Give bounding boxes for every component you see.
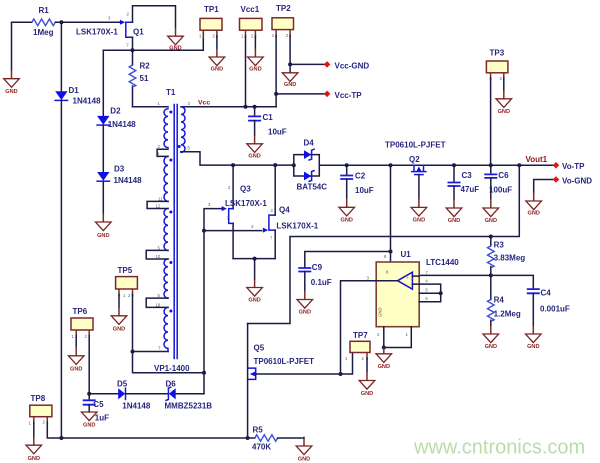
svg-text:GND: GND [485, 218, 497, 224]
wire Q4 drain [274, 165, 276, 215]
svg-text:7: 7 [126, 43, 129, 48]
svg-text:3: 3 [367, 275, 370, 280]
capacitor C4 [527, 288, 570, 325]
svg-text:GND: GND [527, 211, 539, 217]
ground G15 (C9) [297, 291, 313, 315]
wire gate row to Q4 [204, 230, 262, 232]
transistor Q2 [385, 141, 446, 175]
ground G22 (R4) [483, 326, 499, 351]
test point TP7 [345, 331, 370, 361]
svg-text:D4: D4 [304, 139, 315, 148]
diode D6 MMBZ5231B zener [165, 379, 213, 410]
wire TP3 right pin [503, 78, 505, 90]
svg-text:3: 3 [208, 202, 211, 207]
wire stem to ground [254, 259, 256, 279]
junction C5/D5 node [87, 392, 91, 396]
svg-text:R5: R5 [253, 426, 264, 435]
port Vo-TP [553, 162, 585, 171]
svg-text:7: 7 [270, 236, 273, 241]
svg-text:2: 2 [362, 356, 365, 361]
svg-text:GND: GND [448, 218, 460, 224]
wire to Vcc-GND port [290, 63, 327, 65]
svg-text:TP0610L-PJFET: TP0610L-PJFET [254, 357, 315, 366]
capacitor C2 [340, 165, 374, 198]
tap stub 2 [147, 201, 168, 208]
svg-text:1: 1 [406, 332, 409, 337]
svg-text:GND: GND [28, 456, 40, 462]
svg-text:GND: GND [113, 326, 125, 332]
op-amp U1 LTC1440 [367, 250, 460, 337]
svg-text:TP2: TP2 [276, 4, 291, 13]
svg-text:7: 7 [425, 270, 428, 275]
svg-text:LSK170X-1: LSK170X-1 [276, 221, 318, 230]
ground G2 (top, Q1 drain) [168, 28, 184, 52]
svg-text:Vo-GND: Vo-GND [562, 176, 592, 185]
svg-text:3: 3 [251, 224, 254, 229]
svg-text:2: 2 [158, 144, 161, 149]
svg-text:T1: T1 [166, 88, 176, 97]
wire to Vcc-TP port [276, 93, 327, 95]
svg-text:2: 2 [213, 34, 216, 39]
svg-text:Q5: Q5 [254, 343, 265, 352]
ground G24 (rail end) [296, 438, 312, 463]
svg-text:C5: C5 [93, 400, 104, 409]
svg-text:Q3: Q3 [240, 185, 251, 194]
junction C6 / TP3 [489, 163, 493, 167]
junction R3 top [489, 235, 493, 239]
ground G10 (Q2) [411, 199, 427, 224]
svg-text:GND: GND [485, 344, 497, 350]
svg-text:TP8: TP8 [31, 394, 46, 403]
svg-text:1: 1 [72, 334, 75, 339]
svg-text:Vcc-TP: Vcc-TP [335, 91, 363, 100]
svg-text:1: 1 [345, 356, 348, 361]
wire TP6 left pin [75, 336, 77, 348]
wire Vout rail [319, 164, 556, 166]
svg-text:1N4148: 1N4148 [114, 176, 143, 185]
wire Vcc1 right pin to ground [254, 36, 256, 49]
test point TP2 [272, 4, 294, 38]
port Vo-GND [553, 176, 593, 185]
svg-text:C2: C2 [355, 172, 366, 181]
junction R1/D1 [59, 20, 63, 24]
wire TP2 left pin down to Vcc rail [275, 36, 277, 107]
wire TP5 right pin to T1 bottom [132, 295, 134, 352]
test point Vcc1 [240, 5, 263, 39]
svg-text:TP0610L-PJFET: TP0610L-PJFET [385, 141, 446, 150]
wire D2/D3 branch [102, 50, 104, 116]
wire D3 to ground [102, 181, 104, 213]
svg-text:Q1: Q1 [133, 28, 144, 37]
wire U1 bottom pins to ground [384, 327, 412, 348]
ground G17 (TP7) [359, 372, 375, 398]
svg-text:Vcc-GND: Vcc-GND [335, 61, 370, 70]
wire D1 branch down [60, 22, 62, 91]
svg-text:Vcc: Vcc [198, 100, 210, 107]
svg-text:C1: C1 [263, 113, 274, 122]
svg-text:2: 2 [228, 185, 231, 190]
svg-text:C3: C3 [462, 171, 473, 180]
svg-text:10uF: 10uF [268, 128, 287, 137]
junction TP5/T1 node [131, 350, 135, 354]
junction Q3 drain [231, 163, 235, 167]
ground G5 (TP2) [282, 73, 298, 88]
junction T1 bottom node [202, 371, 206, 375]
svg-text:1N4148: 1N4148 [122, 402, 151, 411]
ground G8 (TP3) [496, 90, 512, 115]
svg-text:100uF: 100uF [489, 186, 512, 195]
svg-text:MMBZ5231B: MMBZ5231B [165, 402, 213, 411]
svg-text:D3: D3 [114, 165, 125, 174]
ground G7 (below D3) [96, 214, 112, 240]
svg-text:1: 1 [123, 293, 126, 298]
svg-text:2: 2 [128, 293, 131, 298]
svg-text:GND: GND [361, 391, 373, 397]
svg-text:6: 6 [425, 296, 428, 301]
junction R3 branch [517, 163, 521, 167]
svg-text:U1: U1 [401, 250, 412, 259]
ground G11 (C3) [446, 199, 462, 224]
svg-text:GND: GND [83, 423, 95, 429]
svg-text:8: 8 [384, 254, 387, 259]
resistor R2 [129, 50, 150, 107]
ground G3 (TP1) [209, 49, 225, 73]
ground G13 (Vo-GND) [526, 193, 542, 217]
ground G9 (C2) [339, 199, 355, 224]
svg-text:GND: GND [248, 298, 260, 304]
ground G18 (TP5) [111, 307, 127, 332]
svg-text:R1: R1 [39, 6, 50, 15]
svg-text:VP1-1400: VP1-1400 [154, 364, 190, 373]
resistor R3 [488, 237, 526, 276]
ground G6 (C1) [247, 135, 263, 160]
svg-text:2: 2 [85, 334, 88, 339]
wire Q1 drain to top rail and GND [133, 6, 176, 28]
junction U1 ground node [382, 346, 386, 350]
svg-text:3.83Meg: 3.83Meg [494, 253, 526, 262]
wire U1 out row to C4 [419, 275, 533, 288]
wire Q1 source [132, 37, 134, 50]
wire TP6 right pin down to C5 node [88, 336, 90, 401]
wire TP1 right pin to ground [216, 36, 218, 49]
svg-text:GND: GND [298, 457, 310, 463]
ground G19 (TP6) [68, 347, 84, 372]
wire D1 to bottom rail [60, 100, 62, 438]
svg-text:1: 1 [29, 421, 32, 426]
svg-text:0.001uF: 0.001uF [540, 304, 570, 313]
junction R3/R4 node [489, 273, 493, 277]
wire D2 to D3 [102, 125, 104, 172]
port Vcc-GND [324, 61, 370, 70]
svg-text:Vcc1: Vcc1 [241, 5, 260, 14]
wire Q3 drain [232, 165, 234, 209]
capacitor C6 [484, 165, 512, 199]
wire TP8 left pin [33, 422, 35, 437]
wire R2 to T1 pin1 [133, 106, 169, 108]
transistor Q3 [208, 185, 267, 224]
svg-text:BAT54C: BAT54C [297, 183, 328, 192]
svg-text:1.2Meg: 1.2Meg [494, 309, 521, 318]
wire TP3 left pin down to Vout rail [490, 78, 492, 165]
wire U1 pins 4-5-6 loop [419, 284, 441, 302]
wire Vcc rail [181, 106, 276, 108]
svg-text:D1: D1 [69, 86, 80, 95]
tap stub 3 [146, 250, 168, 259]
wire TP5 left pin [118, 295, 120, 308]
junction C3 [452, 163, 456, 167]
svg-text:Vout1: Vout1 [526, 155, 548, 164]
diode D5 1N4148 [117, 379, 151, 410]
svg-text:C4: C4 [541, 288, 552, 297]
svg-text:0.1uF: 0.1uF [311, 278, 332, 287]
svg-text:47uF: 47uF [461, 185, 480, 194]
wire R1 to Q1 gate [55, 21, 121, 23]
svg-text:7: 7 [158, 346, 161, 351]
svg-text:1: 1 [241, 34, 244, 39]
transformer T1 [154, 88, 191, 373]
junction C9 branch [389, 250, 393, 254]
svg-text:GND: GND [498, 109, 510, 115]
junction Q1 source node [131, 48, 135, 52]
junction Q4 drain [273, 163, 277, 167]
svg-text:R2: R2 [140, 62, 151, 71]
wire R5 to ground [278, 437, 304, 440]
svg-text:1N4148: 1N4148 [108, 120, 137, 129]
svg-text:LTC1440: LTC1440 [426, 258, 459, 267]
wire Q5 source to bottom rail [247, 324, 249, 439]
svg-text:3: 3 [108, 16, 111, 21]
wire U1 IN+ to Q5 gate node [341, 281, 377, 374]
junction Vcc-GND branch [288, 62, 292, 66]
wire D5 cathode to D6 cathode [126, 393, 169, 395]
resistor R1 [32, 6, 55, 37]
svg-text:2: 2 [251, 34, 254, 39]
svg-text:GND: GND [248, 154, 260, 160]
diode D3 1N4148 [97, 165, 142, 186]
test point TP5 [116, 266, 138, 298]
svg-text:R4: R4 [494, 296, 505, 305]
svg-text:1: 1 [158, 101, 161, 106]
svg-text:2: 2 [43, 420, 46, 425]
svg-text:Q4: Q4 [279, 206, 290, 215]
junction C1 on rail [253, 105, 257, 109]
junction source GND node [253, 257, 257, 261]
wire T1 pin7 down and across [133, 352, 205, 373]
wire TP2 right pin to ground [289, 64, 291, 72]
wire D6 anode to vertical [176, 393, 204, 395]
ground G12 (C6) [483, 199, 499, 224]
svg-text:3: 3 [188, 101, 191, 106]
svg-text:C9: C9 [312, 263, 323, 272]
test point TP8 [29, 394, 52, 426]
svg-text:2: 2 [286, 33, 289, 38]
resistor R4 [488, 275, 521, 325]
svg-text:GND: GND [378, 307, 383, 317]
wire Q3 source [232, 223, 234, 258]
wire C5 node to D5 [89, 393, 118, 395]
svg-text:2: 2 [271, 208, 274, 213]
junction U1 V+ branch [389, 163, 393, 167]
ground G23 (C4) [526, 326, 542, 351]
ground G14 (Q3/Q4 sources) [247, 279, 263, 304]
ground G1 (left of R1) [4, 70, 20, 95]
svg-text:GND: GND [527, 344, 539, 350]
junction C2 [345, 163, 349, 167]
wire source row to TP1 [103, 30, 203, 50]
svg-text:www.cntronics.com: www.cntronics.com [413, 437, 585, 459]
transistor Q5 [248, 343, 314, 379]
svg-text:C6: C6 [498, 171, 509, 180]
svg-text:TP6: TP6 [73, 307, 88, 316]
capacitor C3 [448, 165, 480, 199]
svg-text:GND: GND [299, 309, 311, 315]
svg-text:LSK170X-1: LSK170X-1 [76, 28, 118, 37]
wire U1 V+ from rail [390, 165, 392, 262]
port Vcc-TP [324, 91, 362, 100]
diode D2 1N4148 [97, 107, 136, 129]
svg-text:Vo-TP: Vo-TP [562, 162, 585, 171]
ground G20 (C5) [81, 412, 97, 429]
svg-text:D6: D6 [166, 379, 177, 388]
svg-text:R3: R3 [494, 240, 505, 249]
svg-text:LSK170X-1: LSK170X-1 [225, 199, 267, 208]
wire Q5 gate row to TP7 [256, 353, 353, 375]
svg-text:GND: GND [413, 217, 425, 223]
svg-text:GND: GND [378, 364, 390, 370]
svg-text:TP7: TP7 [353, 331, 368, 340]
wire Q2 stem to ground [418, 175, 420, 199]
wire Vo-GND [534, 180, 556, 193]
svg-text:1: 1 [199, 34, 202, 39]
svg-text:470K: 470K [252, 443, 271, 452]
wire TP7 right pin [366, 358, 368, 372]
svg-text:TP3: TP3 [490, 48, 505, 57]
svg-text:D2: D2 [110, 107, 121, 116]
wire T1 pin5 to D4 [181, 152, 294, 165]
wire gate node long vertical [203, 231, 205, 394]
svg-text:1N4148: 1N4148 [73, 96, 102, 105]
svg-text:2: 2 [127, 12, 130, 17]
svg-text:10uF: 10uF [355, 186, 374, 195]
transistor Q1 [76, 12, 144, 48]
svg-text:GND: GND [70, 366, 82, 372]
ground G16 (U1) [376, 348, 392, 371]
resistor R5 [252, 426, 278, 452]
test point TP1 [199, 5, 222, 39]
svg-text:D5: D5 [117, 379, 128, 388]
wire source bottom row [233, 258, 275, 260]
svg-text:5: 5 [425, 288, 428, 293]
svg-text:1: 1 [272, 33, 275, 38]
ground G4 (Vcc1) [248, 49, 264, 73]
svg-text:2: 2 [377, 332, 380, 337]
wire R1 left lead to GND [12, 22, 32, 70]
ground G21 (TP8) [26, 437, 42, 463]
test point TP3 [486, 48, 508, 81]
svg-text:TP5: TP5 [118, 266, 133, 275]
svg-text:5: 5 [188, 146, 191, 151]
wire Q4 source [274, 230, 276, 259]
svg-text:1Meg: 1Meg [33, 28, 54, 37]
junction Q5 on rail [246, 436, 250, 440]
tap stub 4 [146, 298, 168, 307]
svg-text:GND: GND [211, 66, 223, 72]
svg-text:GND: GND [5, 89, 17, 95]
test point TP6 [71, 307, 93, 339]
tap stub 1 [157, 149, 168, 156]
svg-text:GND: GND [249, 66, 261, 72]
junction Vcc1 pin on rail [244, 105, 248, 109]
svg-text:GND: GND [340, 217, 352, 223]
wire Vout sense down and across to Q5 drain [248, 165, 520, 323]
svg-text:2: 2 [500, 76, 503, 81]
wire Q3 gate [204, 209, 222, 231]
svg-text:GND: GND [284, 82, 296, 88]
capacitor C1 [248, 107, 287, 137]
capacitor C5 [83, 400, 109, 423]
junction gate node [202, 229, 206, 233]
wire TP2 right pin [289, 36, 291, 65]
diode D4 BAT54C [294, 139, 327, 192]
junction D4 input [292, 163, 296, 167]
wire C9 branch [305, 252, 391, 268]
svg-text:4: 4 [425, 278, 428, 283]
diode D1 1N4148 [55, 86, 101, 106]
svg-text:1uF: 1uF [95, 413, 109, 422]
svg-text:GND: GND [97, 233, 109, 239]
junction pins loop [439, 291, 443, 295]
wire Vcc1 left pin to Vcc rail [245, 36, 247, 107]
junction gate/TP7 node [339, 372, 343, 376]
svg-text:Q2: Q2 [409, 155, 420, 164]
svg-text:TP1: TP1 [204, 5, 219, 14]
capacitor C9 [298, 263, 332, 291]
wire TP8 right pin to bottom rail [47, 422, 255, 438]
svg-text:51: 51 [140, 74, 149, 83]
junction Vcc-TP branch [274, 92, 278, 96]
transistor Q4 [251, 206, 319, 241]
junction D1 on rail [59, 436, 63, 440]
